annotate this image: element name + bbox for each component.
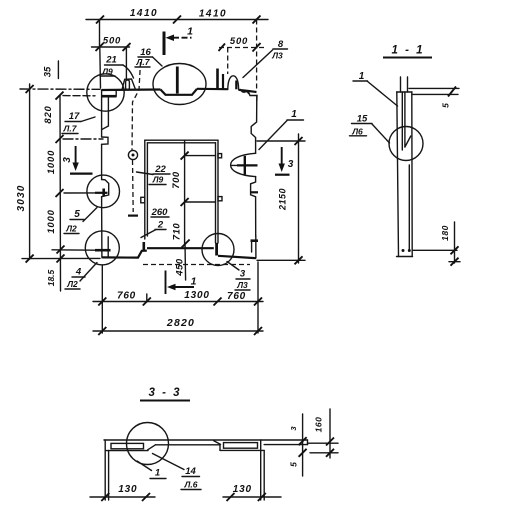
svg-text:18.5: 18.5	[46, 269, 56, 286]
svg-text:5: 5	[289, 462, 299, 467]
svg-text:700: 700	[171, 171, 182, 189]
svg-text:Л9: Л9	[152, 175, 164, 185]
svg-text:1 - 1: 1 - 1	[391, 45, 424, 57]
svg-text:1410: 1410	[199, 9, 227, 20]
svg-text:3: 3	[62, 157, 73, 163]
svg-text:1000: 1000	[46, 209, 57, 233]
svg-text:4: 4	[75, 267, 82, 278]
svg-text:760: 760	[227, 291, 246, 302]
svg-text:Л.6: Л.6	[184, 480, 198, 490]
svg-text:3: 3	[288, 159, 294, 170]
svg-text:Л2: Л2	[66, 279, 78, 289]
svg-text:450: 450	[175, 258, 186, 277]
svg-text:35: 35	[43, 66, 54, 77]
svg-text:130: 130	[233, 484, 252, 495]
svg-text:Л3: Л3	[236, 280, 248, 290]
svg-text:5: 5	[441, 103, 451, 108]
svg-text:500: 500	[103, 36, 121, 47]
svg-text:160: 160	[314, 417, 324, 433]
svg-text:1300: 1300	[184, 290, 209, 301]
svg-text:3 - 3: 3 - 3	[148, 387, 181, 399]
svg-text:2820: 2820	[166, 317, 195, 329]
svg-text:1410: 1410	[130, 8, 158, 19]
svg-text:2150: 2150	[278, 188, 288, 211]
svg-text:Л.7: Л.7	[136, 57, 151, 67]
svg-text:5: 5	[74, 209, 80, 220]
svg-text:Л3: Л3	[271, 51, 283, 61]
svg-text:130: 130	[118, 484, 137, 495]
svg-text:3: 3	[240, 269, 246, 280]
svg-text:3: 3	[289, 426, 298, 431]
svg-text:500: 500	[230, 36, 248, 47]
svg-text:820: 820	[43, 105, 54, 123]
svg-text:Л.7: Л.7	[63, 124, 78, 134]
svg-text:760: 760	[117, 291, 136, 302]
svg-text:1: 1	[187, 26, 193, 38]
svg-text:3030: 3030	[16, 184, 27, 211]
svg-text:Л6: Л6	[351, 127, 363, 137]
svg-text:21: 21	[105, 55, 117, 66]
svg-text:Л2: Л2	[65, 224, 77, 234]
svg-text:14: 14	[185, 466, 196, 477]
svg-text:1: 1	[191, 276, 197, 288]
svg-text:1: 1	[291, 109, 297, 120]
svg-text:180: 180	[440, 225, 450, 241]
svg-text:1000: 1000	[46, 150, 57, 174]
svg-text:17: 17	[69, 111, 80, 122]
svg-text:Л9: Л9	[101, 67, 113, 77]
svg-text:710: 710	[172, 223, 183, 241]
svg-text:1: 1	[155, 468, 160, 479]
